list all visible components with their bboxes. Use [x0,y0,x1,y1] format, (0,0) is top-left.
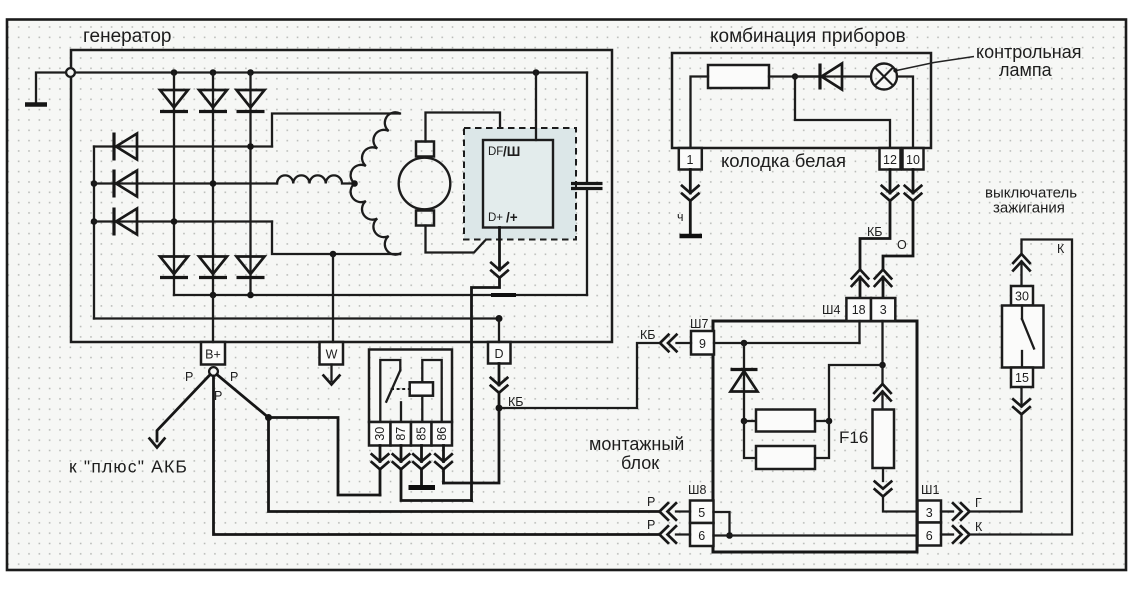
wire rotor top brush to regulator [426,113,501,142]
wire to battery arrow [157,375,210,442]
pin Sh7-9 [691,331,714,355]
diode VD8 left row2 [94,170,277,198]
wire pin87 to D+ riser [401,469,472,500]
diode VD cluster [795,64,871,90]
pin Sh1-6 [918,523,942,546]
diode VD7 left row1 [94,133,272,161]
relay pin 30 [369,422,391,446]
wire DF from bus [535,73,537,141]
relay coil wire to 86 [422,360,441,422]
svg-text:85: 85 [415,427,429,441]
svg-text:87: 87 [394,427,408,441]
wire Sh1-6 stub [941,533,953,535]
node dot bottom bus col2 [210,292,217,299]
connector after Sh1-6 [953,526,970,543]
instrument cluster box [672,53,931,148]
connector under pin87 [393,454,410,469]
wire relay pin85 stub [420,446,423,462]
node dot row1 col3 [247,143,254,150]
fuse F16 [873,410,895,469]
relay coil wire to 85 [421,396,423,422]
node open circle under B+ [209,367,218,376]
wire fuse-top to resistors [829,365,883,421]
svg-text:К: К [1057,242,1065,256]
node dot bus col3 [247,69,254,76]
wire into Sh4-3 [882,277,885,298]
svg-text:D+: D+ [488,212,503,224]
wire resistor left to pin1 [691,77,709,149]
wire pin15 stub [1020,387,1022,407]
diode VD5 bottom col2 [199,257,227,278]
rotor brush bottom [416,211,434,226]
svg-text:к "плюс" АКБ: к "плюс" АКБ [69,457,188,477]
connector under fuse [875,482,892,497]
ignition pin 15 [1011,368,1033,388]
pin Sh8-5 [690,501,714,524]
wire KB to mounting block Sh7 [499,343,660,408]
wire rectifier column 2 [212,73,214,296]
relay K1 body [369,350,452,423]
wire resistor right [769,75,820,77]
wire D to KB node [498,393,501,408]
ground under pin1 [680,234,703,239]
pin Sh4-3 [871,298,895,321]
arrowhead battery [150,439,165,448]
top bus wire B+ [75,71,587,73]
node dot row2 col2 [210,180,217,187]
svg-text:Р: Р [647,495,655,509]
svg-text:К: К [975,520,983,534]
connector above Sh4-3 [875,270,892,287]
wire B+ diagonal to junction [217,375,269,418]
node dot row3 col1 [171,218,178,225]
node dot after resistor [792,73,798,79]
wire junction down to P row1 [269,418,661,512]
generator box [71,50,612,342]
wire KB node down to relay 86 [444,408,500,483]
node dot bus DF [533,69,540,76]
terminal D [488,342,511,364]
wire pin10 stub [912,170,915,194]
wire D riser [498,319,500,343]
svg-text:Р: Р [185,370,193,384]
svg-text:18: 18 [852,303,866,317]
wire col2 to B+ [212,295,214,342]
svg-text:3: 3 [926,506,933,520]
ground wire top-left [36,73,66,104]
svg-text:D: D [494,347,503,361]
rotor brush top [416,142,434,157]
connector before Sh7-9 [660,335,677,352]
relay pin 85 [411,422,432,446]
svg-text:15: 15 [1015,371,1029,385]
svg-text:КБ: КБ [867,225,883,239]
connector under pin15 [1013,399,1030,414]
relay pin 87 [391,422,412,446]
node dot fuse top [879,362,886,369]
svg-text:Р: Р [647,518,655,532]
svg-text:генератор: генератор [83,26,171,47]
regulator U1 box [483,140,553,228]
node dot resistors left [741,418,748,425]
relay pin 86 [432,422,453,446]
node dot W tap [330,251,337,258]
wire B+ down to P row2 [214,376,661,535]
node dot resistors right [826,418,833,425]
switch contact stub top [1021,306,1023,320]
relay stub to 87 [400,402,402,422]
svg-text:КБ: КБ [640,328,656,342]
svg-text:30: 30 [1015,290,1029,304]
mounting block box [713,321,917,552]
diode VD block [731,343,758,421]
svg-text:Г: Г [975,496,982,510]
svg-text:W: W [326,348,338,362]
resistor R2 block [744,421,829,469]
svg-text:/Ш: /Ш [503,144,520,159]
svg-text:/+: /+ [506,210,518,225]
wire pin85 to ground [420,469,423,485]
connector under pin10 [905,186,922,201]
diode VD6 bottom col3 [237,257,265,278]
pin Sh1-3 [918,501,942,523]
relay actuator dashes [391,388,410,390]
wire branch to pin12 [795,77,890,149]
wire fuse bottom stub [882,468,884,481]
wire pin86 up-right [442,469,445,483]
node dot left bus row2 [91,180,98,187]
switch contact stub bottom [1021,351,1023,368]
connector under pin86 [435,454,452,469]
diode VD2 top col2 [199,90,227,112]
wire pin1 to ground [689,201,692,234]
wire pin15 down to G [1020,414,1022,511]
relay contact from 30 [380,360,400,422]
connector before Sh8-6 [660,526,677,543]
connector above ignition 30 [1013,254,1030,271]
connector under pin85 [413,454,430,469]
svg-text:F16: F16 [839,428,868,447]
connector above Sh4-18 [852,270,869,287]
svg-text:1: 1 [687,153,694,167]
wire K long to ignition top [970,240,1073,535]
svg-text:10: 10 [906,153,920,167]
svg-text:6: 6 [698,529,705,543]
svg-text:3: 3 [880,303,887,317]
svg-text:Р: Р [214,389,222,403]
switch blade [1022,319,1034,349]
stator coil L1 horizontal [277,175,355,183]
wire left bus [93,147,95,319]
wire lamp to pin10 [897,77,913,149]
wire Sh4-3 drop [881,321,883,365]
wire fuse top stub [881,365,883,384]
svg-text:В+: В+ [205,348,221,362]
node: open circle on generator body [66,68,75,77]
connector pin 10 [903,148,924,170]
diode VD9 left row3 [94,208,272,236]
wire pin12 stub [889,170,892,194]
node dot P junction [265,414,272,421]
ground under relay [409,485,436,490]
wire bottom bus [174,294,587,296]
wire junction to relay 30 [269,418,381,496]
wire long horizontal to D [94,317,499,319]
connector pin 1 [679,148,702,170]
connector above fuse [874,384,891,401]
wire D+ to relay 87 [472,278,500,501]
svg-text:Ш1: Ш1 [921,483,939,497]
svg-text:блок: блок [621,453,659,473]
node dot KB [496,405,503,412]
relay coil [410,382,433,395]
svg-text:5: 5 [698,506,705,520]
svg-text:ч: ч [677,210,684,224]
svg-text:Ш8: Ш8 [688,483,706,497]
wire pin1 stub [689,170,692,194]
svg-text:DF: DF [488,146,503,158]
wire pin9 internal bus [714,342,860,344]
control lamp HL [871,64,897,90]
diode VD3 top col3 [237,90,265,112]
node dot stator star [351,180,358,187]
pin Sh8-6 [690,523,714,546]
diode VD4 bottom col1 [160,257,188,278]
svg-text:Р: Р [230,370,238,384]
svg-text:колодка белая: колодка белая [721,150,846,171]
connector under pin1 [682,186,699,201]
stator coil L2 upper [351,112,400,183]
wire connector to pin6 [676,533,690,535]
wire D down [498,364,501,386]
lamp pointer line [897,57,975,71]
svg-text:6: 6 [926,529,933,543]
svg-text:зажигания: зажигания [993,200,1065,217]
wire pin12 KB jog [860,201,890,270]
connector under pin12 [882,186,899,201]
wire fuse to Sh1-3 [883,497,918,512]
connector before Sh8-5 [660,503,677,520]
svg-text:контрольная: контрольная [976,42,1081,62]
node dot at D riser [496,315,503,322]
svg-text:Ш7: Ш7 [690,317,708,331]
ignition switch body [1002,306,1044,368]
connector after Sh1-3 [953,503,970,520]
wire into pin30 [1020,262,1022,287]
node dot lamp pointer [893,68,897,72]
svg-text:комбинация приборов: комбинация приборов [710,26,906,47]
arrowhead W [324,376,340,385]
wire W arrow out [330,365,332,382]
wire Sh1-3 stub [941,510,953,512]
stator coil L3 lower [351,184,400,255]
connector under pin30 [372,454,389,469]
wire relay pin86 stub [442,446,445,462]
connector pin 12 [880,148,901,170]
svg-text:86: 86 [435,427,449,441]
wire rectifier column 1 [173,73,175,296]
wire W tap to terminal [332,254,334,342]
svg-text:Ш4: Ш4 [822,303,840,317]
chassis tick on bottom bus [491,293,516,297]
wire Sh8 jumper [714,512,730,536]
wire pin30 down [379,469,382,495]
ground [25,102,47,107]
connector pair under D [491,378,508,393]
rotor [399,158,451,210]
terminal W [320,342,344,365]
diode VD1 top col1 [160,90,188,112]
wire into Sh4-18 [859,277,862,298]
wire D+ down with connector [498,228,501,271]
svg-text:30: 30 [373,427,387,441]
wire phase3 to stator [272,222,400,255]
node dot left bus row3 [91,218,98,225]
wire Sh8-6 to Sh1-6 [714,534,918,536]
wire into fuse [881,392,883,410]
wire rotor bottom brush to D+ [426,226,497,253]
relay blade [386,370,400,401]
ignition pin 30 [1011,286,1033,306]
node dot bus col2 [210,69,217,76]
wire connector to pin5 [676,510,690,512]
connector pair on D+ wire [491,263,508,278]
svg-text:9: 9 [699,337,706,351]
svg-text:О: О [897,238,907,252]
svg-text:монтажный: монтажный [589,434,684,454]
capacitor C1 [571,73,603,296]
pin Sh4-18 [846,298,871,321]
wire connector to pin9 [677,342,692,344]
node dot diode branch [741,340,748,347]
wire G to ignition [970,510,1022,512]
wire relay pin87 stub [400,446,403,462]
node dot bus col1 [171,69,178,76]
svg-text:лампа: лампа [999,60,1053,80]
wire Sh4-18 drop [858,321,860,343]
terminal B+ [201,342,225,365]
wire relay pin30 stub [379,446,382,462]
regulator dashed housing [464,128,576,240]
wire rectifier column 3 [249,73,251,296]
resistor R cluster [708,65,769,88]
wire pin10 O jog [883,201,913,270]
node dot bottom bus col3 [247,292,254,299]
svg-text:12: 12 [883,153,897,167]
wire phase1 to stator [272,114,400,147]
node dot Sh8 jumper [726,532,733,539]
resistor R1 block [744,410,829,432]
